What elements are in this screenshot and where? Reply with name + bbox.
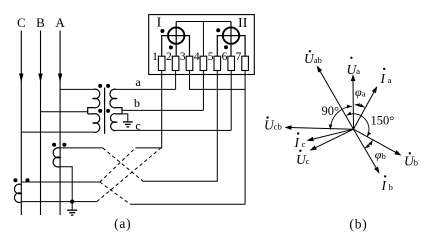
angle arc 150deg xyxy=(347,112,372,137)
terminal 3 xyxy=(180,51,193,70)
CT A polarity dot left xyxy=(52,143,56,147)
terminal 4 xyxy=(194,51,207,70)
terminal 5 xyxy=(208,51,221,70)
PT primary winding BC xyxy=(88,114,100,133)
PT polarity dot secondary top xyxy=(106,84,110,88)
svg-text:c: c xyxy=(302,139,306,149)
CT C secondary S2 / common wire xyxy=(21,201,97,203)
svg-text:a: a xyxy=(362,89,366,99)
PT secondary winding a-b xyxy=(110,89,122,114)
crossover wire common to t1 corner (dashed) xyxy=(97,148,161,201)
PT secondary ground tap wire xyxy=(122,114,128,122)
phasor Ic xyxy=(307,129,354,141)
svg-text:I: I xyxy=(157,16,162,31)
svg-text:150°: 150° xyxy=(371,113,395,127)
phasor Ib xyxy=(354,129,380,174)
svg-text:b: b xyxy=(414,158,419,168)
svg-text:ab: ab xyxy=(314,55,323,65)
label Uc xyxy=(296,150,310,168)
terminal 1 xyxy=(152,51,165,70)
wire t1 drop xyxy=(136,71,162,148)
label phi-a xyxy=(355,85,366,99)
wattmeter element II circle xyxy=(223,27,239,43)
element II polarity dot upper xyxy=(216,28,220,32)
terminal 6 xyxy=(222,51,235,70)
element I current coil wire t1-t3 xyxy=(162,36,190,57)
label Ua xyxy=(347,57,361,77)
wire A to PT primary xyxy=(60,88,93,90)
element I polarity dot lower xyxy=(169,45,173,49)
wire t2 drop xyxy=(175,71,177,90)
svg-text:cb: cb xyxy=(274,122,283,132)
CT A secondary S1 wire xyxy=(60,147,103,149)
CT common ground symbol xyxy=(67,202,77,216)
wire c line to terminal 6 xyxy=(116,129,231,131)
svg-text:(a): (a) xyxy=(114,216,131,231)
svg-text:c: c xyxy=(306,156,310,166)
PT polarity dot primary mid xyxy=(98,109,102,113)
phase line C xyxy=(19,31,23,216)
svg-text:90°: 90° xyxy=(322,104,340,118)
CT C polarity dot right xyxy=(26,178,30,182)
label Uab xyxy=(304,50,323,66)
angle arc 90deg xyxy=(329,105,352,130)
label Ib xyxy=(381,175,394,193)
svg-text:5: 5 xyxy=(208,51,214,63)
angle arc phi-b xyxy=(365,140,373,148)
svg-text:b: b xyxy=(134,96,140,110)
svg-text:A: A xyxy=(55,15,65,30)
angle arc phi-a xyxy=(355,103,365,107)
ground node junction dot xyxy=(70,200,74,204)
phase line B xyxy=(38,31,42,216)
label phi-b xyxy=(375,147,387,161)
crossover wire CT-C S1 to t1 line (dashed) xyxy=(100,148,136,182)
crossover wire CT-A S1 to t5 line (dashed) xyxy=(103,148,143,181)
PT ground symbol xyxy=(123,122,133,127)
PT core xyxy=(104,88,106,134)
phasor Ub xyxy=(354,129,402,155)
element I voltage wire to t2 xyxy=(175,22,177,57)
wire t3 drop and link to t7 xyxy=(190,71,246,90)
CT on phase A winding xyxy=(53,148,60,167)
phasor Uc xyxy=(310,129,354,150)
wire t6 drop xyxy=(230,71,232,131)
svg-text:b: b xyxy=(382,151,387,161)
PT polarity dot secondary mid xyxy=(106,109,110,113)
svg-text:a: a xyxy=(135,75,141,89)
crossover wire CT-C S1 to t7 line (dashed) xyxy=(100,182,131,204)
wattmeter element I circle xyxy=(168,27,184,43)
CT on phase C winding xyxy=(14,184,21,202)
wire a line to terminal 2 xyxy=(116,88,175,90)
svg-text:B: B xyxy=(36,15,45,30)
phasor Uab xyxy=(317,65,354,129)
svg-text:7: 7 xyxy=(236,51,242,63)
PT secondary winding b-c xyxy=(110,114,122,131)
wire t5 drop xyxy=(143,71,217,182)
CT A secondary S2 wire to ground node xyxy=(60,167,72,202)
CT A polarity dot right xyxy=(62,143,66,147)
PT primary winding AB xyxy=(88,89,100,114)
wire b line to terminal 4 xyxy=(122,109,203,111)
svg-text:1: 1 xyxy=(152,51,158,63)
label Ub xyxy=(404,152,419,168)
CT C polarity dot left xyxy=(13,178,17,182)
svg-text:2: 2 xyxy=(166,51,172,63)
element II polarity dot lower xyxy=(224,45,228,49)
terminal 7 xyxy=(236,51,249,70)
element II current coil wire t5-t7 xyxy=(217,36,245,57)
svg-text:C: C xyxy=(17,15,26,30)
svg-text:4: 4 xyxy=(194,51,200,63)
common wire drop to t4 xyxy=(202,22,204,57)
phasor Ua xyxy=(351,74,356,129)
PT polarity dot primary top xyxy=(98,84,102,88)
svg-text:3: 3 xyxy=(180,51,186,63)
wire t4 drop xyxy=(202,71,204,111)
phasor Ucb xyxy=(285,125,354,130)
label Ic xyxy=(294,132,306,150)
phasor Ia xyxy=(354,86,378,129)
svg-text:(b): (b) xyxy=(349,217,367,232)
phase line A xyxy=(58,31,62,216)
svg-text:b: b xyxy=(389,182,394,192)
terminal 2 xyxy=(166,51,179,70)
element I polarity dot upper xyxy=(160,29,164,33)
label Ia xyxy=(380,68,392,86)
wire t7 drop xyxy=(130,71,245,205)
svg-text:6: 6 xyxy=(222,51,228,63)
svg-text:a: a xyxy=(388,75,392,85)
label Ucb xyxy=(264,116,283,132)
voltage-coil common top wire xyxy=(176,21,231,23)
meter box xyxy=(149,15,255,75)
wire C to PT primary xyxy=(21,131,93,133)
svg-text:a: a xyxy=(356,66,360,76)
CT C secondary S1 wire xyxy=(21,181,100,183)
svg-text:II: II xyxy=(238,16,248,31)
element II voltage wire to t6 xyxy=(230,22,232,57)
wire B to PT primary midpoint xyxy=(41,111,88,113)
